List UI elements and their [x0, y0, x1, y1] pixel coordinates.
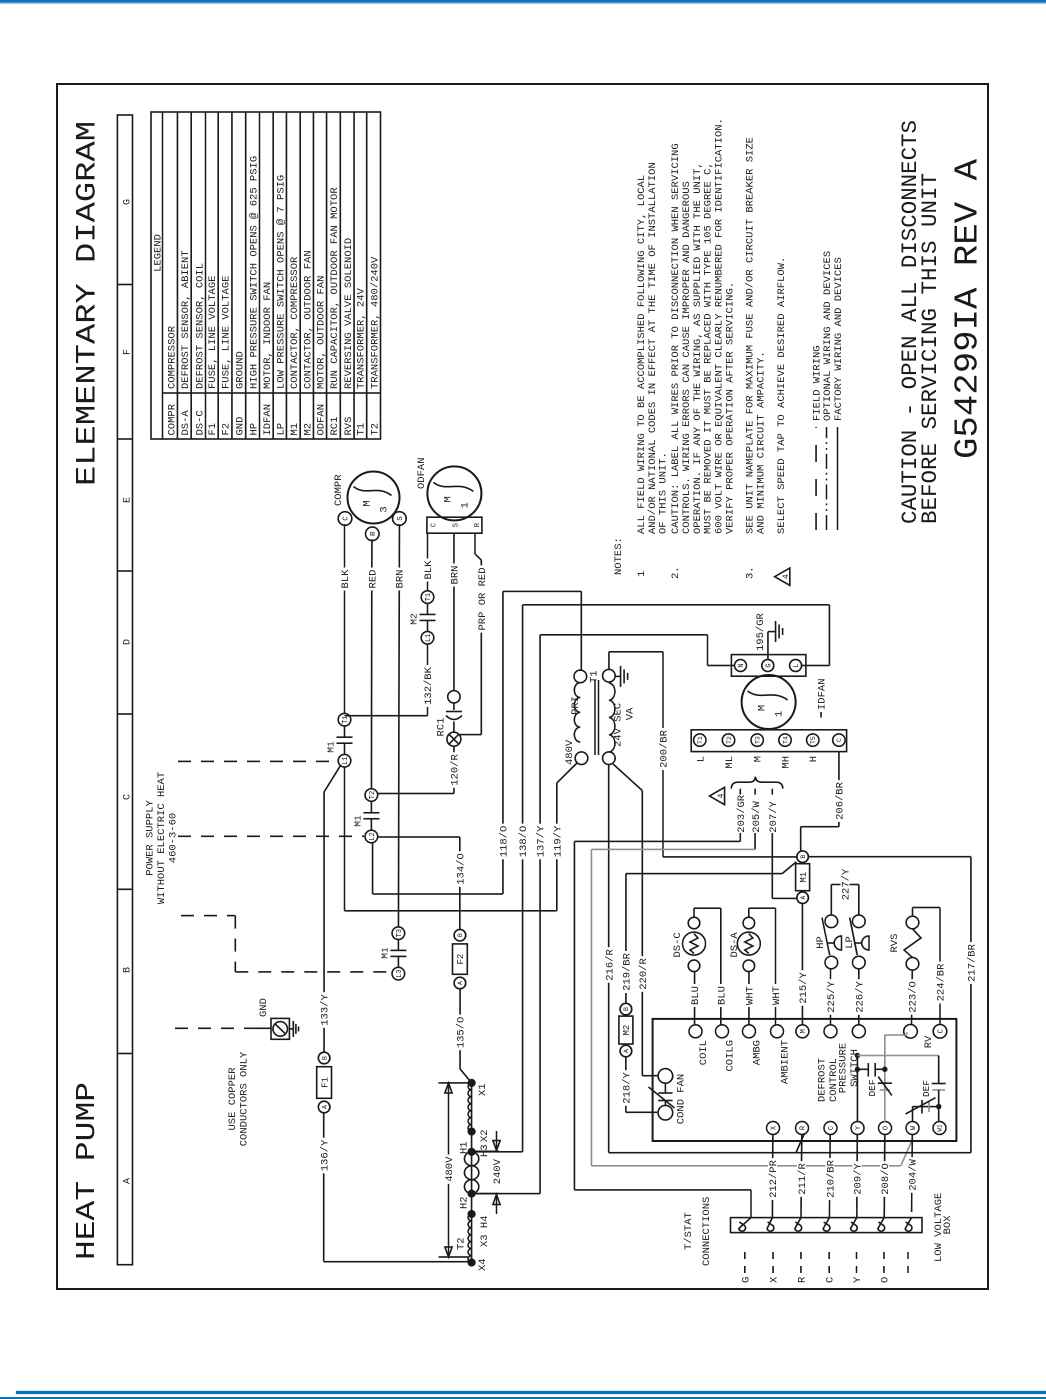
svg-text:T1: T1 — [356, 423, 368, 436]
NC contact DEF 2 on W branch — [912, 1107, 914, 1122]
svg-text:T/STAT: T/STAT — [683, 1212, 695, 1250]
svg-text:219/BR: 219/BR — [622, 952, 634, 991]
svg-text:IDFAN: IDFAN — [262, 404, 274, 436]
wire 218/Y — [625, 1056, 627, 1112]
IDFAN terminal L — [790, 660, 802, 672]
wire 120/R — [453, 746, 455, 793]
svg-text:136/Y: 136/Y — [319, 1139, 331, 1171]
svg-text:M1: M1 — [380, 947, 391, 959]
svg-text:L: L — [793, 663, 801, 667]
dimension 240V — [474, 1150, 499, 1152]
svg-text:HEAT PUMP: HEAT PUMP — [73, 1082, 103, 1260]
svg-text:215/Y: 215/Y — [798, 972, 810, 1004]
svg-text:DEF: DEF — [867, 1079, 878, 1096]
svg-text:B: B — [122, 967, 133, 973]
svg-text:210/BR: 210/BR — [825, 1159, 837, 1198]
board terminal PS2 — [852, 1025, 865, 1038]
svg-text:211/R: 211/R — [797, 1163, 809, 1195]
svg-text:HIGH PRESSURE SWITCH OPENS @ 6: HIGH PRESSURE SWITCH OPENS @ 625 PSIG — [248, 156, 260, 389]
compressor terminal C — [338, 512, 352, 526]
svg-text:T2: T2 — [726, 736, 733, 744]
svg-text:F2: F2 — [221, 423, 233, 436]
ground dashed line — [175, 1027, 249, 1029]
svg-text:ELEMENTARY DIAGRAM: ELEMENTARY DIAGRAM — [73, 121, 104, 486]
board terminal W — [906, 1122, 919, 1135]
wire 212/PR — [771, 1134, 773, 1218]
svg-text:IDFAN: IDFAN — [817, 678, 829, 710]
wire BLK phase1 rail — [344, 524, 346, 713]
svg-text:4: 4 — [717, 793, 726, 798]
svg-text:COMPRESSOR: COMPRESSOR — [166, 325, 178, 389]
wire 204/W — [911, 1134, 914, 1212]
svg-text:C: C — [430, 523, 438, 527]
svg-text:AND MINIMUM CIRCUIT AMPACITY.: AND MINIMUM CIRCUIT AMPACITY. — [756, 351, 768, 534]
svg-text:HP: HP — [248, 423, 260, 436]
svg-text:REVERSING VALVE SOLENOID: REVERSING VALVE SOLENOID — [343, 238, 355, 389]
svg-text:X1: X1 — [477, 1083, 489, 1096]
wire BRN phase3 rail — [398, 524, 399, 927]
wire BRN to RC1 — [453, 533, 455, 690]
24V hot rail — [609, 1152, 971, 1154]
line style legend optional wiring — [826, 427, 828, 530]
svg-text:BEFORE SERVICING THIS UNIT: BEFORE SERVICING THIS UNIT — [917, 173, 943, 524]
board terminal PS1 — [824, 1025, 837, 1038]
wire 215/Y — [801, 903, 803, 1025]
thermostat connection strip — [731, 1218, 923, 1233]
svg-text:HP: HP — [815, 936, 827, 949]
svg-text:W1: W1 — [937, 1124, 944, 1132]
wire 211/R — [800, 1134, 803, 1218]
board trace Y row — [856, 1056, 858, 1123]
svg-text:COMPR: COMPR — [333, 474, 345, 506]
svg-text:C: C — [122, 794, 133, 800]
board terminal R — [796, 1122, 809, 1135]
reversing valve solenoid RVS — [906, 958, 919, 971]
svg-text:220/R: 220/R — [638, 958, 650, 990]
svg-text:205/W: 205/W — [751, 800, 763, 832]
svg-text:D: D — [122, 639, 133, 645]
svg-text:F1: F1 — [320, 1077, 330, 1088]
svg-text:VA: VA — [625, 707, 637, 720]
svg-text:DS-A: DS-A — [729, 932, 741, 958]
transformer T1 ground — [615, 675, 620, 677]
svg-text:200/BR: 200/BR — [659, 729, 671, 768]
svg-text:CONDUCTORS ONLY: CONDUCTORS ONLY — [239, 1051, 251, 1146]
board terminal COILG — [716, 1025, 729, 1038]
svg-text:240V: 240V — [492, 1158, 504, 1184]
svg-text:A: A — [800, 896, 807, 900]
svg-text:M2: M2 — [622, 1025, 632, 1036]
svg-text:R: R — [474, 522, 482, 527]
IDFAN terminal G — [762, 660, 774, 672]
svg-text:X4: X4 — [477, 1258, 489, 1271]
wire 216/R — [608, 765, 610, 1153]
wire 205/W gray run to W terminal — [591, 848, 755, 850]
svg-text:COILG: COILG — [725, 1040, 737, 1072]
svg-text:PRP OR RED: PRP OR RED — [477, 567, 489, 630]
svg-text:T1: T1 — [697, 736, 704, 744]
IDFAN speed terminal T3 — [751, 734, 763, 746]
svg-text:4: 4 — [782, 574, 791, 579]
svg-text:M: M — [442, 496, 454, 502]
svg-text:T1: T1 — [342, 715, 350, 723]
svg-text:T2: T2 — [369, 791, 377, 799]
svg-text:Y: Y — [852, 1276, 864, 1283]
diagonal to R terminal — [796, 1133, 805, 1153]
power supply dashed line phase 2 — [178, 835, 364, 837]
svg-text:WHT: WHT — [745, 986, 757, 1005]
bottom blue bar — [0, 1397, 1046, 1399]
power supply dashed line phase 3 — [181, 915, 235, 917]
wire 119/Y — [344, 767, 346, 911]
wire 132/BK — [345, 715, 428, 717]
compressor motor COMPR — [348, 472, 400, 524]
svg-text:1: 1 — [459, 502, 471, 508]
defrost relay capacitor contact DEF 1 — [857, 1068, 868, 1070]
wire 219/BR — [625, 874, 627, 1005]
wire 227/Y link — [830, 885, 832, 916]
wire 137/Y — [472, 1193, 540, 1195]
note 4 warning triangle — [775, 568, 790, 585]
svg-text:T1: T1 — [425, 593, 433, 601]
wire RED phase2 rail — [370, 539, 373, 788]
svg-text:137/Y: 137/Y — [536, 825, 548, 857]
svg-text:RUN CAPACITOR, OUTDOOR FAN MOT: RUN CAPACITOR, OUTDOOR FAN MOTOR — [329, 187, 341, 389]
svg-text:138/O: 138/O — [518, 826, 530, 858]
svg-text:G54299IA REV A: G54299IA REV A — [950, 159, 987, 459]
svg-text:135/O: 135/O — [456, 1017, 468, 1049]
svg-text:M1: M1 — [326, 741, 337, 753]
wire 209/Y — [856, 1134, 859, 1218]
low pressure switch LP — [853, 956, 866, 969]
svg-text:M1: M1 — [353, 815, 364, 827]
drawing outer border — [57, 84, 988, 1289]
IDFAN terminal N — [735, 660, 747, 672]
wire PRP OR RED — [474, 533, 476, 554]
svg-text:G: G — [122, 199, 133, 205]
svg-text:119/Y: 119/Y — [552, 825, 564, 857]
wire 220/R — [613, 764, 642, 791]
svg-text:SELECT SPEED TAP TO ACHIEVE DE: SELECT SPEED TAP TO ACHIEVE DESIRED AIRF… — [776, 257, 788, 534]
IDFAN speed terminal C — [833, 734, 845, 746]
svg-text:RED: RED — [367, 570, 379, 589]
contactor contact M1 phase3 — [392, 967, 405, 980]
svg-text:M2: M2 — [302, 423, 314, 436]
IDFAN speed terminal T4 — [779, 734, 791, 746]
svg-text:H: H — [808, 756, 820, 762]
board trace Y to W1 gray drop — [857, 1055, 938, 1057]
svg-text:RV: RV — [923, 1035, 935, 1048]
svg-text:CONNECTIONS: CONNECTIONS — [701, 1197, 713, 1266]
ground lug GND — [249, 1027, 271, 1029]
svg-text:BOX: BOX — [942, 1215, 954, 1235]
board terminal COIL — [689, 1025, 702, 1038]
wire 207/Y — [771, 833, 773, 898]
svg-text:DEFROST SENSOR, ABIENT: DEFROST SENSOR, ABIENT — [180, 250, 192, 389]
svg-text:212/PR: 212/PR — [768, 1159, 780, 1198]
svg-text:132/BK: 132/BK — [423, 666, 435, 705]
svg-text:H2: H2 — [458, 1196, 470, 1209]
svg-text:X: X — [771, 1125, 779, 1130]
zone reference strip — [117, 115, 132, 1265]
svg-text:T5: T5 — [810, 736, 817, 744]
wire 223/O — [911, 970, 914, 1025]
IDFAN line terminal box — [731, 655, 806, 677]
svg-text:F1: F1 — [207, 423, 219, 436]
transformer T1 24V — [574, 670, 587, 683]
top blue bar — [0, 0, 1046, 5]
wire 136/Y — [323, 1112, 325, 1262]
svg-text:S: S — [453, 523, 461, 527]
svg-text:A: A — [122, 1178, 133, 1184]
svg-text:GND: GND — [235, 417, 247, 436]
svg-text:LEGEND: LEGEND — [153, 234, 165, 272]
svg-text:223/O: 223/O — [907, 981, 919, 1013]
svg-text:226/Y: 226/Y — [854, 981, 866, 1013]
board terminal AMBG — [743, 1025, 756, 1038]
contactor contact M1 phase2 — [365, 830, 378, 843]
line style legend field wiring — [815, 427, 817, 530]
svg-text:BLK: BLK — [423, 560, 435, 580]
IDFAN speed terminal T1 — [694, 734, 706, 746]
svg-text:MH: MH — [780, 756, 792, 769]
bottom blue line thin — [16, 1391, 1046, 1393]
svg-text:480V: 480V — [564, 739, 576, 765]
svg-text:C: C — [825, 1277, 837, 1283]
wire 200/BR — [608, 652, 610, 670]
board terminal O — [879, 1122, 892, 1135]
high pressure switch HP — [825, 956, 838, 969]
svg-text:O: O — [879, 1277, 891, 1283]
board terminal RV — [904, 1025, 918, 1039]
svg-text:M: M — [800, 1029, 808, 1033]
svg-text:LP: LP — [844, 936, 856, 949]
svg-text:C: C — [828, 1126, 836, 1130]
wire BLU coilg — [693, 908, 695, 917]
svg-text:BLU: BLU — [690, 986, 702, 1005]
svg-text:C: C — [343, 516, 351, 521]
svg-text:1: 1 — [636, 571, 648, 577]
svg-text:LP: LP — [275, 423, 287, 436]
svg-text:VERIFY PROPER OPERATION AFTER: VERIFY PROPER OPERATION AFTER SERVICING. — [725, 282, 737, 534]
defrost sensor DS-A — [737, 932, 760, 955]
svg-text:1: 1 — [774, 711, 786, 717]
compressor terminal R — [366, 527, 380, 541]
svg-text:M: M — [757, 705, 769, 711]
contactor coil M1 — [797, 892, 809, 904]
svg-text:216/R: 216/R — [604, 949, 616, 981]
run capacitor RC1 — [448, 691, 460, 703]
svg-text:209/Y: 209/Y — [853, 1163, 865, 1195]
wire 134/O — [459, 837, 461, 930]
compressor terminal S — [393, 512, 407, 526]
svg-text:MOTOR, OUTDOOR FAN: MOTOR, OUTDOOR FAN — [316, 276, 328, 389]
svg-text:217/BR: 217/BR — [967, 943, 979, 982]
svg-text:MOTOR, INDOOR FAN: MOTOR, INDOOR FAN — [262, 282, 274, 389]
wire 135/O — [459, 988, 461, 1069]
wire 217/BR — [808, 856, 971, 858]
svg-text:X2: X2 — [479, 1129, 491, 1142]
t-stat connector 7 — [905, 1218, 912, 1232]
legend table — [151, 112, 381, 439]
t-stat connector 2 — [767, 1218, 774, 1232]
board terminal Y — [851, 1122, 864, 1135]
dimension 480V — [448, 1083, 450, 1257]
t-stat connector 4 — [823, 1218, 830, 1232]
svg-text:T2: T2 — [369, 423, 381, 436]
svg-text:460-3-60: 460-3-60 — [168, 813, 180, 863]
indoor fan motor IDFAN — [742, 675, 796, 729]
svg-text:B: B — [321, 1056, 328, 1060]
svg-text:COIL: COIL — [698, 1040, 710, 1065]
svg-text:CONTACTOR, COMPRESSOR: CONTACTOR, COMPRESSOR — [289, 256, 301, 389]
contactor coil M2 — [620, 1045, 632, 1057]
wire BLU coil — [694, 972, 696, 1026]
svg-text:POWER SUPPLY: POWER SUPPLY — [145, 800, 157, 876]
svg-text:COMPR: COMPR — [166, 403, 178, 435]
svg-text:M1: M1 — [289, 423, 301, 436]
svg-text:C: C — [938, 1029, 946, 1033]
wire 200/BR branch to M1 coil B — [663, 856, 798, 858]
svg-text:TRANSFORMER, 24V: TRANSFORMER, 24V — [356, 287, 368, 389]
svg-text:WITHOUT ELECTRIC HEAT: WITHOUT ELECTRIC HEAT — [156, 772, 168, 904]
svg-text:204/W: 204/W — [908, 1159, 920, 1191]
outdoor fan motor ODFAN — [427, 466, 481, 520]
board terminal X — [767, 1122, 780, 1135]
svg-text:USE COPPER: USE COPPER — [227, 1067, 239, 1131]
transformer T2 480/240V — [471, 1083, 473, 1263]
IDFAN speed terminal T5 — [807, 734, 819, 746]
wire 226/Y — [858, 969, 860, 1025]
defrost control board — [653, 1019, 957, 1141]
svg-text:M: M — [362, 500, 374, 506]
svg-text:L2: L2 — [369, 832, 377, 840]
svg-text:2.: 2. — [670, 566, 682, 579]
wire 225/Y — [830, 969, 832, 1025]
svg-text:BLK: BLK — [340, 569, 352, 589]
board terminal W1 — [933, 1122, 946, 1135]
svg-text:PRI: PRI — [570, 696, 582, 715]
svg-text:L3: L3 — [396, 969, 404, 977]
svg-text:E: E — [122, 497, 133, 503]
wire WHT ambg — [748, 972, 750, 1026]
svg-text:L1: L1 — [342, 756, 350, 764]
board terminal C — [824, 1122, 837, 1135]
svg-text:COND FAN: COND FAN — [676, 1074, 688, 1124]
t-stat connector 3 — [795, 1218, 802, 1232]
svg-text:A: A — [457, 981, 464, 985]
svg-text:M1: M1 — [799, 872, 809, 883]
svg-text:BRN: BRN — [395, 570, 407, 589]
wire 224/BR — [912, 908, 914, 917]
svg-text:F: F — [122, 349, 133, 355]
svg-text:N: N — [738, 663, 746, 667]
wire 118/O — [372, 843, 374, 894]
wire 203/GR — [739, 833, 741, 841]
svg-text:T3: T3 — [396, 929, 404, 937]
svg-text:O: O — [883, 1126, 891, 1130]
svg-text:225/Y: 225/Y — [826, 981, 838, 1013]
svg-text:RVS: RVS — [889, 934, 901, 953]
svg-text:203/GR: 203/GR — [736, 794, 748, 833]
svg-text:DEFROST SENSOR, COIL: DEFROST SENSOR, COIL — [194, 263, 206, 389]
svg-text:M2: M2 — [409, 613, 420, 625]
svg-text:GND: GND — [258, 998, 270, 1017]
svg-text:M: M — [753, 756, 765, 762]
svg-text:R: R — [796, 1276, 808, 1283]
svg-text:DEF: DEF — [921, 1080, 932, 1097]
svg-text:B: B — [800, 855, 807, 859]
svg-text:DS-C: DS-C — [672, 932, 684, 957]
svg-text:T3: T3 — [755, 736, 762, 744]
warning triangle 4 speed tap — [710, 787, 725, 804]
svg-text:208/O: 208/O — [880, 1163, 892, 1195]
wire 205/W — [754, 833, 756, 849]
svg-text:GROUND: GROUND — [235, 351, 247, 389]
svg-text:T2: T2 — [455, 1237, 467, 1250]
wire 138/O — [472, 1151, 523, 1153]
condenser fan switch COND FAN — [658, 1069, 673, 1084]
svg-text:R: R — [370, 531, 378, 536]
board terminal M — [796, 1025, 809, 1038]
svg-text:A: A — [321, 1105, 328, 1109]
speed tap brace — [731, 777, 783, 789]
svg-text:NOTES:: NOTES: — [613, 537, 625, 575]
t-stat lead 7 dashes — [907, 1245, 909, 1273]
svg-text:H1: H1 — [458, 1141, 470, 1154]
fuse F1 — [318, 1101, 330, 1113]
svg-text:ODFAN: ODFAN — [316, 404, 328, 436]
svg-text:X3 H4: X3 H4 — [479, 1215, 491, 1247]
contactor contact M2 — [421, 632, 434, 645]
svg-text:L1: L1 — [425, 634, 433, 642]
svg-text:F2: F2 — [456, 954, 466, 965]
line style legend factory wiring — [837, 427, 839, 530]
svg-text:FUSE, LINE VOLTAGE: FUSE, LINE VOLTAGE — [207, 276, 219, 389]
svg-text:T4: T4 — [782, 736, 789, 744]
IDFAN speed terminal strip — [691, 730, 846, 752]
svg-text:DEFROST: DEFROST — [817, 1058, 829, 1102]
svg-text:W: W — [910, 1125, 918, 1130]
svg-text:133/Y: 133/Y — [320, 994, 332, 1026]
svg-text:BRN: BRN — [450, 566, 462, 585]
svg-text:RC1: RC1 — [329, 417, 341, 436]
svg-text:206/BR: 206/BR — [835, 781, 847, 820]
t-stat connector 6 — [878, 1218, 885, 1232]
svg-text:Y: Y — [855, 1125, 863, 1130]
svg-text:G: G — [740, 1277, 752, 1283]
wire 133/Y — [323, 792, 325, 1053]
svg-text:227/Y: 227/Y — [841, 868, 853, 900]
svg-text:TRANSFORMER, 480/240V: TRANSFORMER, 480/240V — [369, 256, 381, 389]
svg-text:L: L — [695, 756, 707, 762]
wire 208/O — [883, 1134, 886, 1218]
NC contact DEF 1 on O line — [878, 1082, 892, 1084]
svg-text:BLU: BLU — [716, 986, 728, 1005]
svg-text:C: C — [836, 738, 843, 742]
svg-text:120/R: 120/R — [450, 754, 462, 786]
svg-text:118/O: 118/O — [499, 826, 511, 858]
svg-text:ML: ML — [724, 756, 736, 769]
svg-text:207/Y: 207/Y — [768, 800, 780, 832]
svg-text:AMBG: AMBG — [752, 1040, 764, 1065]
defrost relay capacitor contact DEF 2 — [938, 1056, 940, 1084]
svg-text:LOW PRESSURE SWITCH OPENS @ 7: LOW PRESSURE SWITCH OPENS @ 7 PSIG — [275, 175, 287, 389]
wire 210/BR — [828, 1134, 831, 1218]
contactor contact M1 phase1 — [338, 754, 351, 767]
svg-text:T1: T1 — [589, 670, 601, 683]
svg-text:ODFAN: ODFAN — [416, 457, 428, 489]
